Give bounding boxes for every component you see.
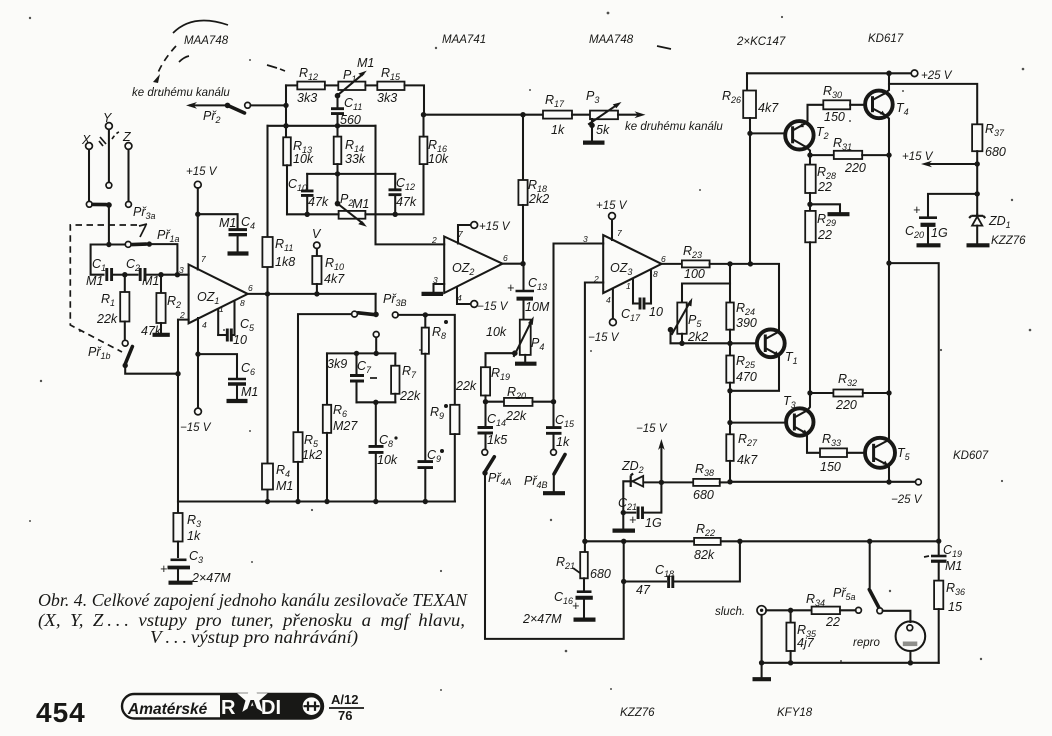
node C18 top — [621, 539, 626, 544]
svg-text:R2: R2 — [167, 294, 181, 310]
svg-text:6: 6 — [248, 283, 253, 293]
node R32 left — [807, 390, 812, 395]
svg-text:22k: 22k — [399, 389, 421, 403]
ground R28-R29 — [828, 212, 850, 216]
wire treble bottom left — [287, 213, 339, 215]
svg-text:R10: R10 — [325, 256, 344, 272]
op-amp OZ1 — [189, 265, 248, 324]
wire feedback to R11 column — [268, 125, 287, 127]
svg-text:ke druhému kanálu: ke druhému kanálu — [625, 121, 723, 133]
wire repro down — [909, 651, 911, 663]
svg-text:47k: 47k — [308, 195, 329, 209]
capacitor C15 — [546, 402, 575, 449]
svg-text:Z: Z — [122, 130, 131, 144]
svg-text:4k7: 4k7 — [737, 453, 758, 467]
svg-text:22: 22 — [817, 228, 832, 242]
svg-text:R9: R9 — [430, 405, 444, 421]
wire Pr5a down — [869, 541, 871, 587]
svg-text:+: + — [160, 562, 167, 576]
capacitor C21 electrolytic — [618, 482, 662, 530]
ground C3 — [169, 581, 193, 585]
wire jack ground stub — [761, 663, 763, 677]
pin8 stub OZ3 — [650, 270, 652, 304]
headphone jack sluch — [715, 606, 766, 618]
node C8 bus — [373, 499, 378, 504]
node +15V tap — [975, 161, 980, 166]
resistor R28 — [805, 155, 836, 211]
svg-text:C19: C19 — [943, 543, 962, 559]
node R11 column — [265, 291, 270, 296]
node feedback join — [283, 123, 288, 128]
svg-text:1k: 1k — [551, 123, 565, 137]
ground R2 — [153, 333, 170, 337]
svg-text:1: 1 — [626, 281, 631, 291]
svg-text:C15: C15 — [555, 413, 575, 429]
svg-text:1k5: 1k5 — [487, 433, 507, 447]
svg-text:A/12: A/12 — [331, 692, 358, 707]
svg-text:R28: R28 — [817, 165, 836, 181]
wire selector common down — [108, 208, 110, 245]
svg-text:+: + — [507, 281, 514, 295]
pin1 stub — [217, 310, 219, 336]
svg-text:4k7: 4k7 — [758, 101, 779, 115]
node C18 branch — [621, 579, 626, 584]
node R25 bottom — [727, 388, 732, 393]
capacitor C5 — [218, 317, 255, 347]
logo star — [237, 683, 268, 712]
hand sketch marks near Y — [99, 137, 106, 146]
svg-text:R20: R20 — [507, 385, 526, 401]
wire T4 collector — [885, 73, 889, 93]
ground sluch — [753, 677, 772, 681]
wire contact to R8/R9 — [398, 315, 455, 405]
small dash by C7 — [370, 377, 377, 379]
svg-text:C6: C6 — [241, 361, 255, 377]
wire P5 wiper loop — [671, 330, 683, 344]
svg-text:KD617: KD617 — [868, 33, 904, 45]
node R18 top — [520, 112, 525, 117]
arrowhead -15V — [658, 439, 665, 450]
wire Pr2 to column — [251, 104, 287, 106]
node R5 bus — [295, 499, 300, 504]
svg-text:V: V — [312, 227, 322, 241]
switch Pr3B lower contact — [373, 332, 379, 338]
switch Pr5a contact repro — [877, 608, 883, 614]
node C8 branch — [373, 400, 378, 405]
wire T3 base — [730, 422, 787, 424]
svg-text:−15 V: −15 V — [588, 332, 620, 344]
terminal -15V OZ1 — [195, 408, 202, 415]
node driver column join — [748, 261, 753, 266]
svg-text:R32: R32 — [838, 372, 857, 388]
wire OZ1 out to Pr3B — [375, 294, 377, 312]
pin1 stub OZ3 — [632, 279, 634, 304]
svg-text:MAA748: MAA748 — [589, 34, 634, 46]
capacitor C1 — [86, 257, 112, 288]
svg-text:C13: C13 — [528, 276, 547, 292]
wire contact to repro — [883, 611, 911, 622]
svg-text:220: 220 — [835, 398, 857, 412]
resistor R32 — [810, 372, 889, 412]
switch Pr5a lever — [869, 590, 879, 608]
capacitor C8 — [369, 402, 398, 501]
svg-text:680: 680 — [985, 145, 1006, 159]
dashed box phono input — [70, 225, 137, 352]
resistor R27 — [726, 432, 758, 482]
ground Pr4B — [543, 491, 565, 495]
node C9 bus — [423, 499, 428, 504]
node P4 wiper — [512, 350, 518, 356]
wire Pr3B to R5 — [298, 314, 352, 432]
svg-text:MAA741: MAA741 — [442, 34, 486, 46]
switch Pr4B lever — [554, 455, 565, 475]
node R10 — [314, 291, 319, 296]
svg-text:10M: 10M — [525, 300, 550, 314]
zener diode ZD2 — [621, 459, 644, 487]
node T4 collector rail — [886, 71, 892, 77]
op-amp OZ2 — [444, 237, 502, 294]
svg-text:2×KC147: 2×KC147 — [736, 36, 786, 48]
svg-text:C8: C8 — [379, 433, 393, 449]
switch Pr1b contact — [122, 340, 128, 346]
resistor R30 — [823, 84, 865, 124]
svg-text:P5: P5 — [688, 313, 702, 329]
svg-text:5k: 5k — [596, 123, 610, 137]
svg-text:10k: 10k — [377, 453, 398, 467]
svg-text:R: R — [221, 697, 236, 719]
wire node A to ground — [622, 513, 624, 528]
svg-text:R17: R17 — [545, 93, 565, 109]
svg-text:4j7: 4j7 — [797, 636, 815, 650]
switch Pr4B contact — [551, 449, 557, 455]
wire C18 branch down — [623, 541, 625, 581]
wire C20 branch — [928, 194, 977, 216]
switch Pr1a contact — [125, 242, 131, 248]
svg-text:22k: 22k — [96, 312, 118, 326]
node Pr1a branch — [106, 242, 111, 247]
capacitor C16 electrolytic — [522, 590, 593, 626]
svg-text:6: 6 — [661, 254, 666, 264]
wire pin3 ground stub — [434, 284, 445, 292]
svg-text:8: 8 — [240, 298, 245, 308]
node jack ground — [759, 660, 764, 665]
wire ZD2 to node A — [623, 481, 632, 510]
wire node to C2 — [125, 274, 138, 276]
svg-text:3k9: 3k9 — [327, 357, 347, 371]
switch Pr3B left contact — [352, 311, 358, 317]
wire T1 base — [730, 342, 757, 344]
wire C7 box bottom — [357, 401, 396, 403]
resistor R9 — [430, 379, 477, 502]
resistor R7 — [391, 353, 421, 403]
svg-text:C18: C18 — [655, 563, 674, 579]
wire treble mid — [307, 173, 395, 175]
wire tone column — [285, 85, 287, 137]
switch Pr5a contact sluch — [856, 607, 862, 613]
svg-text:KZZ76: KZZ76 — [620, 707, 655, 719]
svg-text:15: 15 — [948, 600, 962, 614]
svg-text:M1: M1 — [241, 385, 258, 399]
svg-text:R27: R27 — [738, 432, 758, 448]
wire pin2 feedback column — [178, 320, 189, 502]
svg-text:1k8: 1k8 — [275, 255, 295, 269]
wire -15V arrow up — [660, 446, 662, 482]
terminal -15V OZ2 — [471, 301, 478, 308]
svg-text:ZD1: ZD1 — [988, 214, 1011, 230]
node R6 bus — [324, 499, 329, 504]
node C7 branch — [354, 351, 359, 356]
wire wiper to R19 — [486, 353, 515, 367]
node R35 bottom — [788, 660, 793, 665]
svg-text:10: 10 — [649, 305, 663, 319]
resistor R18 — [518, 115, 549, 264]
svg-text:1k: 1k — [187, 529, 201, 543]
potentiometer P1 — [325, 56, 374, 94]
terminal +15V OZ2 — [471, 222, 478, 229]
node C12 bottom — [393, 212, 398, 217]
wire P3 out arrow — [618, 114, 639, 116]
capacitor C11 — [331, 96, 362, 127]
ground P4 — [515, 362, 537, 366]
svg-text:C3: C3 — [189, 549, 203, 565]
node T5 emitter — [886, 479, 891, 484]
svg-text:R34: R34 — [806, 592, 825, 608]
svg-text:MAA748: MAA748 — [184, 35, 229, 47]
node R4 bus — [265, 499, 270, 504]
svg-text:repro: repro — [853, 637, 880, 649]
svg-text:+15 V: +15 V — [596, 200, 628, 212]
wire rail y84 to R37 — [889, 84, 977, 124]
resistor R24 — [726, 284, 757, 344]
wire pin4 down — [197, 318, 199, 408]
node R28-R29 — [807, 202, 812, 207]
svg-text:OZ1: OZ1 — [197, 290, 219, 306]
wire Pr1b to feedback column — [125, 366, 178, 374]
capacitor C18 — [624, 541, 740, 597]
svg-text:T4: T4 — [896, 101, 909, 117]
resistor R10 — [312, 249, 345, 294]
wire T2 collector to R30 — [806, 105, 824, 124]
svg-text:M1: M1 — [86, 274, 103, 288]
node R15-R17 — [421, 112, 426, 117]
resistor R19 — [481, 366, 510, 402]
svg-text:KFY18: KFY18 — [777, 707, 813, 719]
wire Y down — [108, 130, 110, 183]
hand sketch dashed arrow to Pr2 — [157, 46, 176, 75]
potentiometer P3 — [586, 89, 622, 137]
svg-text:Př3a: Př3a — [133, 205, 156, 221]
wire Pr1a to pin3 node — [149, 244, 177, 271]
op-amp OZ3 — [603, 235, 661, 293]
transistor T2 — [785, 121, 828, 149]
svg-text:Př4B: Př4B — [524, 474, 548, 490]
svg-text:KD607: KD607 — [953, 450, 989, 462]
svg-text:+: + — [913, 203, 920, 217]
wire P3 wiper to ground — [591, 119, 593, 141]
hand sketch dash near R12 — [267, 65, 285, 71]
svg-text:R37: R37 — [985, 122, 1005, 138]
svg-text:Př5a: Př5a — [833, 586, 856, 602]
capacitor C19 — [924, 541, 962, 581]
svg-text:R8: R8 — [432, 325, 446, 341]
svg-text:R33: R33 — [822, 432, 841, 448]
svg-text:47: 47 — [636, 583, 651, 597]
wire to OZ2 pin2 column — [376, 126, 445, 245]
node R21 top — [582, 539, 587, 544]
wire Pr4B to ground — [553, 474, 555, 491]
svg-text:3k3: 3k3 — [377, 91, 397, 105]
svg-text:OZ2: OZ2 — [452, 261, 474, 277]
node C4 branch — [195, 212, 200, 217]
svg-text:150: 150 — [824, 110, 845, 124]
resistor R37 — [972, 122, 1006, 215]
resistor R6 — [323, 353, 359, 501]
node R8 top — [423, 312, 428, 317]
node C10 bottom — [305, 212, 310, 217]
switch Pr4A contact — [482, 449, 488, 455]
resistor R3 — [173, 502, 201, 558]
svg-text:R21: R21 — [556, 555, 575, 571]
resistor R25 — [726, 343, 757, 391]
node Pr4A — [482, 470, 487, 475]
wire T1 emitter down — [730, 355, 779, 391]
wire OZ1 output — [248, 293, 376, 295]
svg-text:3: 3 — [583, 234, 588, 244]
selector contact Z — [126, 202, 132, 208]
svg-text:P4: P4 — [531, 336, 544, 352]
arrowhead +15V tap — [921, 161, 932, 167]
resistor R14 — [334, 126, 366, 174]
node Pr2 join — [283, 103, 288, 108]
wire C2 to R2 node — [145, 274, 158, 276]
node C11-R14 — [335, 123, 340, 128]
switch Pr3a lever — [93, 203, 106, 207]
svg-text:6: 6 — [503, 253, 508, 263]
node Pr3B pivot — [373, 312, 379, 318]
node C20 branch — [975, 191, 980, 196]
svg-text:C17: C17 — [621, 307, 641, 323]
svg-text:R36: R36 — [946, 581, 965, 597]
svg-text:C11: C11 — [344, 96, 362, 112]
ground C6 — [227, 399, 248, 403]
terminal +25V — [911, 70, 918, 77]
selector contact Y — [106, 182, 112, 188]
node Pr5a top — [867, 539, 872, 544]
svg-text:R24: R24 — [736, 301, 755, 317]
svg-text:4k7: 4k7 — [324, 272, 345, 286]
terminal -15V OZ3 — [610, 319, 617, 326]
wire T3 collector up — [807, 393, 810, 410]
logo circle inner — [304, 702, 320, 711]
resistor R31 — [810, 136, 889, 175]
resistor R36 — [934, 581, 965, 663]
svg-text:4: 4 — [202, 320, 207, 330]
switch Pr4A lever — [485, 457, 494, 472]
svg-text:R7: R7 — [402, 364, 417, 380]
wire to C1 — [91, 245, 109, 275]
node repro bottom — [908, 660, 913, 665]
resistor R29 — [805, 211, 836, 393]
svg-text:+15 V: +15 V — [479, 221, 511, 233]
svg-text:7: 7 — [201, 254, 206, 264]
zener diode ZD1 — [969, 214, 1026, 247]
switch Pr3B right contact — [392, 312, 398, 318]
svg-text:Př1b: Př1b — [88, 345, 111, 361]
switch Pr2 lever — [229, 106, 245, 113]
node C21 left — [621, 510, 626, 515]
wire bottom bus — [178, 500, 455, 502]
potentiometer P4 — [486, 316, 544, 356]
svg-text:3: 3 — [179, 265, 184, 275]
wire jack to R34 — [766, 609, 811, 611]
svg-text:R3: R3 — [187, 513, 201, 529]
node -15V junction — [659, 480, 664, 485]
node R19-R20-C14 — [483, 399, 488, 404]
svg-text:560: 560 — [340, 113, 361, 127]
node P2 wiper — [335, 201, 341, 207]
svg-text:3k3: 3k3 — [297, 91, 317, 105]
svg-text:C5: C5 — [240, 317, 255, 333]
ground ZD1 — [967, 243, 990, 247]
wire P2 wiper stub — [336, 174, 338, 201]
resistor R21 — [556, 541, 611, 590]
svg-text:Př4A: Př4A — [488, 471, 512, 487]
resistor R2 — [141, 275, 181, 338]
terminal -25V — [916, 479, 922, 485]
resistor R15 — [365, 66, 424, 115]
switch Pr3B lever — [358, 313, 374, 315]
node C18 right — [737, 539, 742, 544]
node P1 wiper — [335, 93, 341, 99]
svg-text:−15 V: −15 V — [180, 422, 212, 434]
svg-text:100: 100 — [684, 267, 705, 281]
node selector common — [106, 202, 112, 208]
svg-text:47k: 47k — [396, 195, 417, 209]
node R2 tap — [158, 272, 163, 277]
wire -25V rail — [730, 481, 915, 483]
svg-text:C9: C9 — [427, 448, 441, 464]
issue fraction bar — [329, 707, 364, 709]
svg-text:−15 V: −15 V — [477, 301, 509, 313]
svg-text:R4: R4 — [276, 463, 290, 479]
wire down to T3 base node — [729, 391, 731, 435]
node OZ2 out — [520, 261, 525, 266]
wire C1 to node — [112, 274, 122, 276]
transistor T3 — [783, 394, 814, 436]
selector contact X — [86, 201, 92, 207]
wire pin7 +15V — [458, 225, 471, 244]
capacitor C3 electrolytic — [160, 549, 231, 585]
svg-text:2k2: 2k2 — [687, 330, 708, 344]
node R20-C15 — [551, 399, 556, 404]
capacitor C17 — [621, 298, 663, 324]
terminal +15V OZ3 — [609, 213, 616, 220]
svg-text:R23: R23 — [683, 244, 702, 260]
capacitor C14 — [478, 402, 508, 449]
node R35 top — [788, 608, 793, 613]
svg-text:+25 V: +25 V — [921, 70, 953, 82]
wire to C6 — [198, 354, 237, 377]
svg-text:T1: T1 — [785, 350, 798, 366]
hand sketch small arc — [179, 56, 189, 62]
svg-text:22k: 22k — [505, 409, 527, 423]
node R27 bottom — [727, 479, 732, 484]
resistor R35 — [786, 610, 817, 663]
svg-text:454: 454 — [36, 697, 86, 728]
svg-text:10k: 10k — [293, 152, 314, 166]
node Pr2 pivot — [225, 103, 231, 109]
capacitor C4 — [219, 215, 255, 251]
